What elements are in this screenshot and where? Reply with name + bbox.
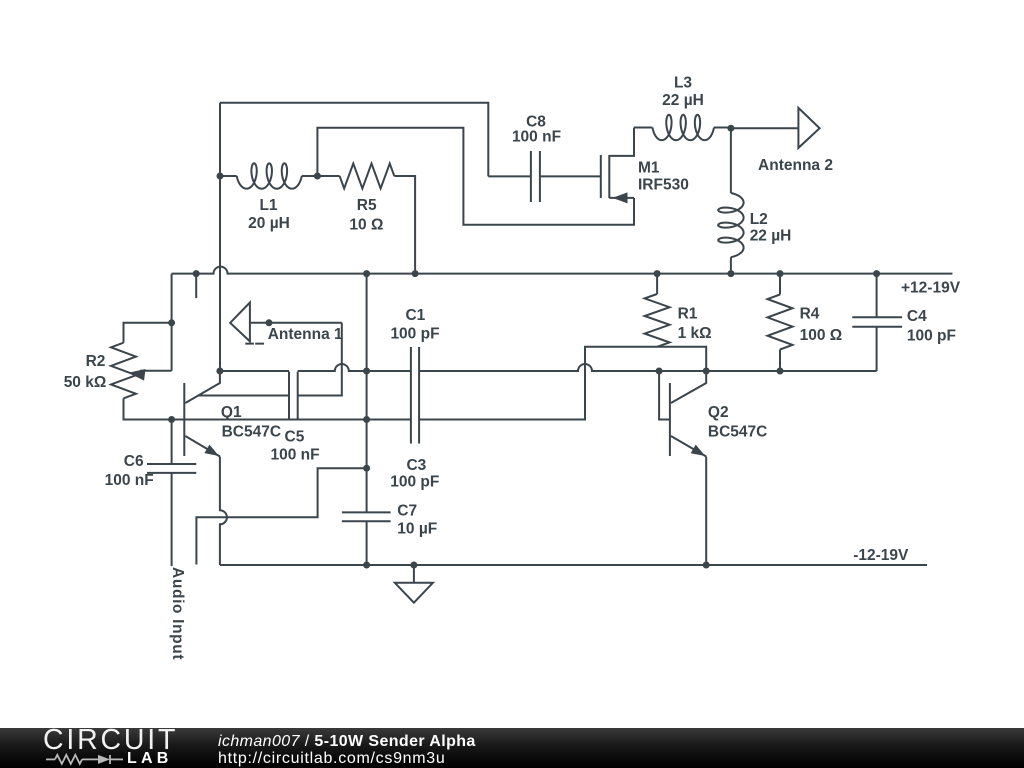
ground symbol	[395, 583, 433, 603]
node bottom rail ground	[410, 562, 417, 569]
node rail R5 column	[412, 270, 419, 277]
wire C5 right plate to C1 with hop	[298, 364, 411, 371]
wire left vertical (L1 left / Q1 collector column)	[219, 103, 221, 371]
transistor M1 drain stub	[609, 128, 634, 156]
node L3 / antenna2 / L2	[727, 125, 734, 132]
wire C3 right lead up and over	[419, 347, 706, 420]
wire -12-19V rail	[220, 564, 927, 566]
node bottom rail x366	[363, 562, 370, 569]
arrow Q1 emitter	[204, 445, 219, 456]
node antenna 1 wire	[266, 319, 273, 326]
transistor M1 gate bar	[600, 155, 602, 198]
capacitor C5	[289, 372, 298, 420]
inductor L3	[652, 115, 714, 140]
node R4 bottom junction	[777, 368, 784, 375]
wire R2 wiper	[140, 370, 172, 372]
wire L2 top lead	[730, 128, 732, 193]
capacitor C4	[852, 317, 902, 327]
transistor Q1 emitter	[185, 436, 220, 457]
arrow R2 wiper	[128, 369, 145, 381]
wire L3 right lead	[714, 127, 731, 129]
arrow Q2 emitter	[691, 445, 706, 456]
capacitor C7	[342, 512, 391, 521]
node collector net x366	[363, 368, 370, 375]
transistor M1 channel bar	[608, 155, 610, 198]
transistor Q2 bar	[669, 383, 671, 456]
wire Q1 collector	[185, 371, 220, 403]
wire audio terminal 2	[196, 468, 366, 564]
inductor L2	[718, 193, 743, 257]
wire Q1 emitter down with hop	[220, 457, 227, 566]
resistor R4	[768, 295, 793, 350]
node rail C4 top	[873, 270, 880, 277]
node rail R1 top	[654, 270, 661, 277]
wire L2 bottom lead	[730, 257, 732, 273]
wire R2 bottom	[124, 398, 172, 419]
wire +12-19V rail	[172, 267, 953, 274]
wire to antenna 2	[731, 127, 799, 129]
wire center column lower	[366, 521, 368, 565]
node rail stub	[193, 270, 200, 277]
wire Q2 collector	[671, 371, 706, 403]
wire R5 right lead down to +rail	[394, 176, 415, 274]
wire R5 junction to M1 source	[317, 128, 634, 225]
wire Q2 base	[659, 371, 670, 420]
wire rail stub	[195, 274, 197, 299]
capacitor C1 C3 plates	[411, 347, 419, 444]
wire C8 left lead	[488, 175, 531, 177]
wire collector net right with hop	[419, 364, 876, 371]
transistor Q2 emitter	[671, 436, 706, 457]
wire L1 left lead	[220, 175, 237, 177]
wire top loop from Q1 collector column to C8	[220, 103, 488, 177]
node rail R4 top	[777, 270, 784, 277]
wire R2 top	[124, 323, 172, 343]
antenna 1 feed dashes	[245, 343, 264, 345]
node L1 left	[217, 173, 224, 180]
inductor L1	[237, 163, 302, 188]
antenna 2 symbol	[798, 108, 819, 148]
wire R4 top lead	[779, 274, 781, 295]
resistor R1	[645, 294, 670, 347]
capacitor C8	[531, 151, 540, 202]
wire Q1 base to C6	[171, 420, 173, 465]
node L1/R5 junction	[314, 173, 321, 180]
antenna 1 symbol	[230, 303, 250, 342]
wire rail left end down to wiper corner	[171, 274, 173, 371]
node R2 top junction	[168, 319, 175, 326]
wire R1 top lead	[656, 274, 658, 294]
node audio wire at x366	[363, 465, 370, 472]
wire L3 left lead	[634, 127, 652, 129]
wire C5 left lead	[198, 395, 289, 397]
transistor M1 source arrow	[613, 192, 628, 203]
node Q1 base / R2 junction	[168, 416, 175, 423]
resistor R5	[340, 164, 395, 189]
node base net at x366	[363, 416, 370, 423]
wire collector net to C5	[220, 370, 289, 372]
wire C5 right lead to antenna1	[298, 323, 342, 396]
resistor R2 body	[111, 343, 136, 399]
wire C4 top lead	[876, 274, 878, 318]
wire C6 bottom (audio terminal 1)	[171, 473, 173, 566]
node rail x366	[363, 270, 370, 277]
node Q2 base junction	[656, 368, 663, 375]
wire L1 right lead to R5	[302, 175, 340, 177]
transistor Q1 bar	[183, 383, 185, 456]
node Q2 collector junction	[703, 368, 710, 375]
wire Q2 emitter down	[705, 457, 707, 566]
transistor M1 source stub	[609, 197, 634, 199]
wire R4 bottom lead	[779, 350, 781, 372]
wire ground stub	[413, 565, 415, 583]
wire C8 right lead to M1 gate	[540, 175, 601, 177]
wire center column upper	[366, 274, 368, 513]
capacitor C6	[147, 464, 196, 473]
wire C4 bottom lead	[876, 327, 878, 371]
node bottom rail Q2 emitter	[703, 562, 710, 569]
wire Q1 base net	[172, 419, 411, 421]
node Q1 collector	[216, 368, 223, 375]
wire antenna 1	[250, 322, 342, 324]
node L2 bottom on +rail	[727, 270, 734, 277]
